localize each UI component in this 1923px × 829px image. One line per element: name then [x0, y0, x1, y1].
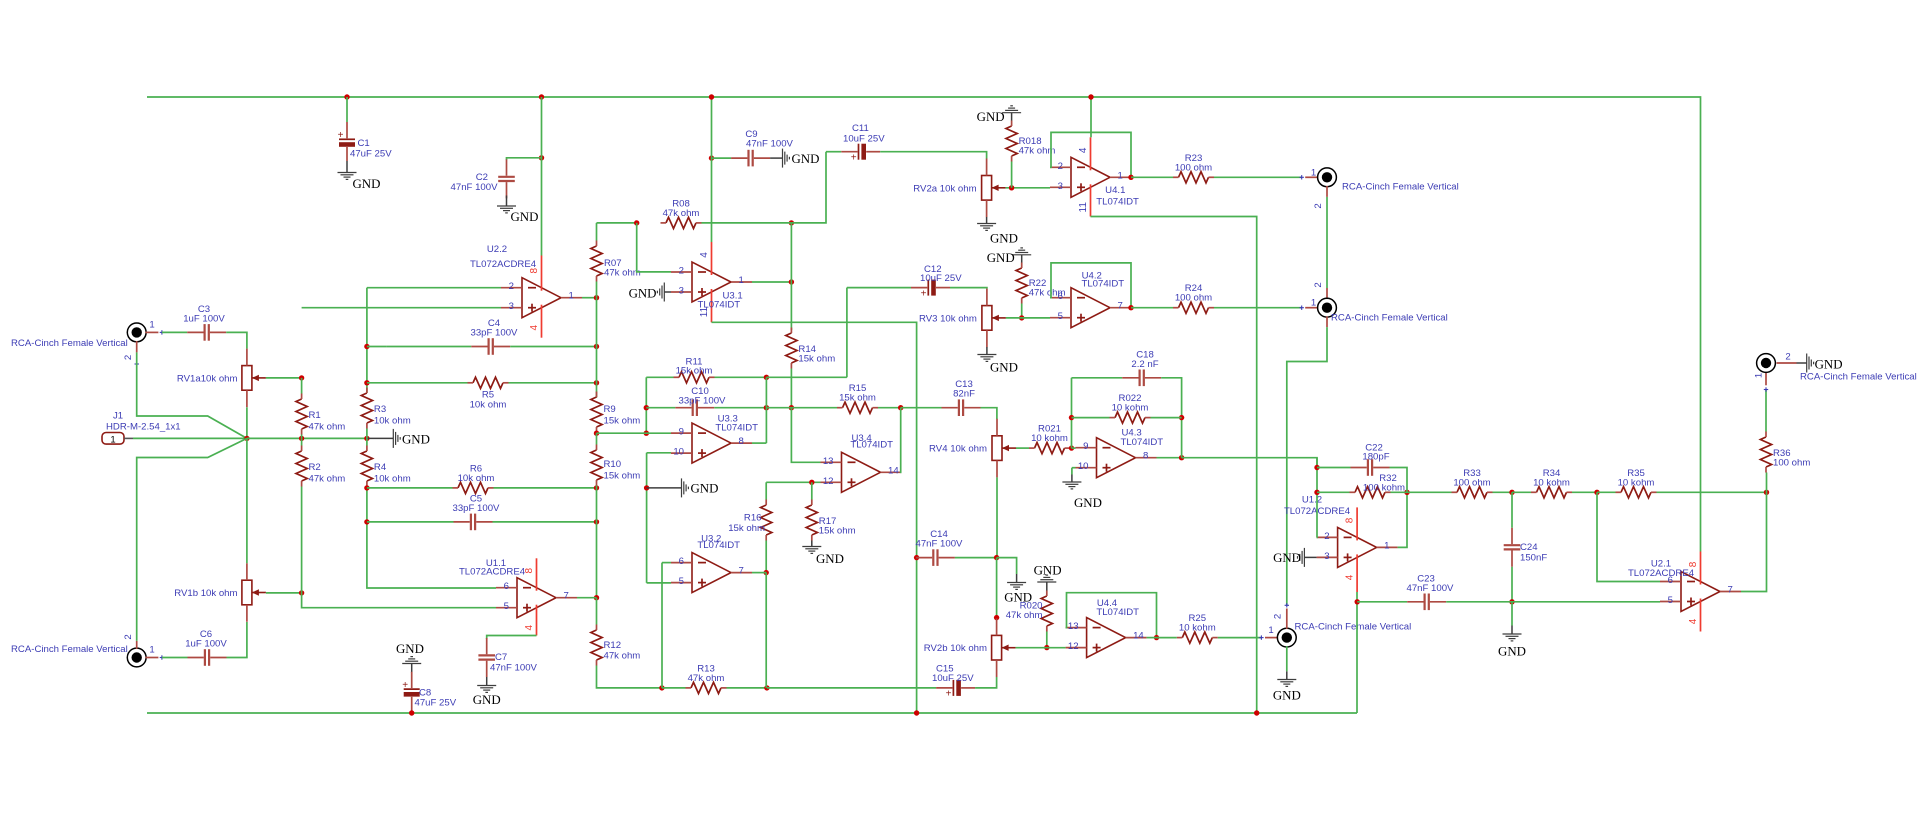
junction — [709, 155, 714, 160]
wire R25 to jack — [1218, 637, 1262, 639]
svg-text:33pF 100V: 33pF 100V — [471, 328, 519, 339]
wire R022 left — [1072, 417, 1110, 419]
wire R15 right — [878, 407, 901, 409]
junction — [1044, 645, 1049, 650]
ground C9 — [770, 149, 819, 168]
wire C12 to RV3 — [950, 288, 987, 289]
label right jack — [1800, 372, 1917, 383]
ground R22 — [987, 248, 1031, 265]
wire to C11 — [791, 152, 826, 223]
label jack2 — [1331, 312, 1448, 323]
svg-text:RCA-Cinch Female Vertical: RCA-Cinch Female Vertical — [1331, 312, 1448, 323]
svg-text:2: 2 — [1313, 203, 1324, 208]
wire to R17 — [811, 482, 813, 499]
svg-text:GND: GND — [691, 482, 719, 496]
svg-text:GND: GND — [353, 177, 381, 191]
wire U4.4 feedback — [1066, 593, 1157, 638]
wire R34 right — [1572, 491, 1597, 493]
svg-text:10k ohm: 10k ohm — [470, 400, 507, 411]
wire to U1.1 pin5 — [302, 593, 496, 608]
potentiometer RV4 — [929, 419, 1016, 478]
junction — [644, 485, 649, 490]
wire U1.2 out — [1398, 492, 1407, 547]
wire V+ to U4.1 pin4 — [1090, 97, 1092, 137]
svg-text:10k ohm: 10k ohm — [374, 474, 411, 485]
wire C23 left — [1357, 601, 1407, 603]
wire U1.2 pin4 to V- rail — [1356, 592, 1358, 713]
resistor R16 — [728, 500, 772, 541]
resistor R4 — [361, 446, 410, 487]
svg-text:1: 1 — [569, 291, 574, 302]
op-amp U1.1 — [459, 558, 577, 636]
junction — [789, 405, 794, 410]
capacitor C18 — [1122, 349, 1161, 386]
junction — [364, 485, 369, 490]
junction — [1254, 710, 1259, 715]
wire U4.3 out — [1157, 457, 1182, 459]
svg-text:3: 3 — [1058, 181, 1063, 192]
resistor R018 — [1006, 121, 1055, 162]
wire U1.2 pin2 node — [1316, 458, 1318, 538]
op-amp U4.3 — [1076, 428, 1164, 478]
svg-text:GND: GND — [987, 251, 1015, 265]
svg-text:10 kohm: 10 kohm — [1533, 477, 1570, 488]
wire R11/C10/pin9 node — [645, 377, 647, 433]
wire U2.2 out — [582, 297, 597, 299]
svg-text:R10: R10 — [604, 459, 622, 470]
capacitor C3 — [183, 304, 226, 341]
connector RCA jack output 2 — [1318, 298, 1337, 317]
pin connection mark — [1285, 603, 1289, 607]
svg-text:15k ohm: 15k ohm — [676, 366, 713, 377]
capacitor C13 — [942, 379, 981, 416]
svg-text:HDR-M-2.54_1x1: HDR-M-2.54_1x1 — [106, 422, 181, 433]
wire R6 left — [367, 487, 453, 489]
svg-text:2.2 nF: 2.2 nF — [1131, 359, 1158, 370]
pin connection mark — [1259, 635, 1263, 639]
capacitor C10 — [675, 386, 726, 416]
svg-text:47k ohm: 47k ohm — [1019, 146, 1056, 157]
junction — [594, 380, 599, 385]
svg-text:U2.2: U2.2 — [487, 244, 507, 255]
resistor R5 — [468, 377, 509, 410]
svg-text:100 ohm: 100 ohm — [1773, 458, 1810, 469]
resistor R34 — [1531, 468, 1572, 498]
ground R018 — [977, 106, 1021, 124]
wire to R14 — [790, 282, 792, 330]
capacitor C7 — [478, 638, 537, 677]
junction — [914, 710, 919, 715]
svg-text:RV3 10k ohm: RV3 10k ohm — [919, 313, 977, 324]
junction — [994, 615, 999, 620]
svg-text:10 kohm: 10 kohm — [1618, 477, 1655, 488]
svg-text:TL074IDT: TL074IDT — [698, 300, 741, 311]
op-amp U1.2 — [1284, 494, 1398, 592]
connector RCA jack output 1 — [1318, 168, 1337, 187]
resistor R33 — [1452, 468, 1493, 498]
svg-text:1: 1 — [1118, 170, 1123, 181]
svg-text:2: 2 — [1273, 614, 1284, 619]
wire — [1147, 637, 1157, 639]
svg-text:33pF 100V: 33pF 100V — [679, 396, 727, 407]
junction — [594, 485, 599, 490]
junction — [539, 94, 544, 99]
svg-text:8: 8 — [739, 436, 744, 447]
wire RV3 wiper to U4.2 pin5 — [1006, 317, 1050, 319]
pin 1 label jack2 — [1311, 297, 1316, 308]
svg-text:2: 2 — [679, 266, 684, 277]
label jack3 — [1295, 622, 1412, 633]
ground RV3 — [977, 347, 1018, 374]
pin connection mark — [160, 330, 164, 334]
connector RCA jack right — [1757, 354, 1776, 373]
svg-text:7: 7 — [1118, 301, 1123, 312]
svg-text:J1: J1 — [113, 410, 123, 421]
junction — [1009, 185, 1014, 190]
junction — [1088, 94, 1093, 99]
resistor R6 — [453, 464, 495, 494]
svg-text:8: 8 — [1345, 517, 1356, 523]
capacitor C15 — [932, 664, 975, 700]
wire R07 top — [596, 223, 598, 241]
svg-text:15k ohm: 15k ohm — [728, 523, 765, 534]
wire R16 bottom — [765, 541, 767, 573]
ground C8 — [396, 642, 424, 673]
wire U1.1 pin4 to C7 — [487, 636, 537, 640]
wire U2.2 pin3 — [302, 307, 501, 309]
wire U2.1 out — [1741, 492, 1767, 591]
svg-text:RV1a10k ohm: RV1a10k ohm — [177, 373, 238, 384]
svg-text:TL074IDT: TL074IDT — [697, 540, 740, 551]
wire C5 left — [367, 521, 454, 523]
svg-text:1uF 100V: 1uF 100V — [185, 639, 227, 650]
svg-text:2: 2 — [1785, 352, 1790, 363]
svg-text:12: 12 — [1068, 641, 1079, 652]
wire out to R13 line — [765, 573, 767, 688]
svg-text:47k ohm: 47k ohm — [1006, 610, 1043, 621]
wire to C1 — [346, 97, 348, 122]
wire U3.1 pin11 to V- rail — [712, 322, 917, 713]
svg-text:8: 8 — [1688, 561, 1699, 567]
junction — [1154, 635, 1159, 640]
pin 2 label jack3 — [1273, 614, 1284, 619]
junction — [1069, 445, 1074, 450]
wire jack1 pin2 to jack2 pin2 — [1326, 197, 1328, 288]
junction — [1179, 455, 1184, 460]
svg-text:R9: R9 — [604, 404, 616, 415]
svg-text:10: 10 — [673, 447, 684, 458]
svg-text:47nF 100V: 47nF 100V — [451, 182, 499, 193]
svg-text:7: 7 — [1728, 585, 1733, 596]
op-amp U3.2 — [671, 533, 752, 592]
capacitor C11 — [841, 123, 885, 163]
junction — [644, 405, 649, 410]
junction — [409, 710, 414, 715]
junction — [1314, 465, 1319, 470]
potentiometer RV2a — [913, 159, 1005, 218]
wire — [915, 557, 918, 559]
svg-text:GND: GND — [1273, 689, 1301, 703]
wire R13 right — [727, 687, 767, 689]
svg-text:10 kohm: 10 kohm — [1031, 433, 1068, 444]
svg-text:+: + — [946, 689, 952, 700]
svg-text:TL072ACDRE4: TL072ACDRE4 — [1628, 568, 1695, 579]
label jack input 2 — [11, 644, 128, 655]
svg-text:47nF 100V: 47nF 100V — [1407, 583, 1455, 594]
svg-text:RCA-Cinch Female Vertical: RCA-Cinch Female Vertical — [11, 644, 128, 655]
junction — [659, 685, 664, 690]
junction — [364, 519, 369, 524]
svg-text:RCA-Cinch Female Vertical: RCA-Cinch Female Vertical — [1295, 622, 1412, 633]
wire C18 left vertical — [1071, 378, 1073, 448]
junction — [299, 436, 304, 441]
junction — [299, 590, 304, 595]
svg-text:47nF 100V: 47nF 100V — [490, 663, 538, 674]
wire jack ground chain — [1287, 327, 1327, 605]
ground RV2a — [977, 217, 1018, 246]
svg-text:RCA-Cinch Female Vertical: RCA-Cinch Female Vertical — [1342, 182, 1459, 193]
wire R24 to jack — [1214, 307, 1302, 309]
wire C11 to RV2a — [880, 152, 986, 159]
ground right jack — [1797, 354, 1843, 373]
pin 1 label jack3 — [1268, 625, 1273, 636]
svg-text:10k ohm: 10k ohm — [458, 473, 495, 484]
resistor R24 — [1173, 283, 1214, 313]
junction — [344, 94, 349, 99]
wire U3.2 pin5 — [647, 582, 671, 584]
junction — [1128, 305, 1133, 310]
svg-text:R1: R1 — [309, 410, 321, 421]
wire R020 bottom — [1046, 632, 1048, 648]
svg-text:4: 4 — [529, 324, 540, 330]
svg-text:5: 5 — [1058, 311, 1063, 322]
svg-text:9: 9 — [679, 427, 684, 438]
junction — [364, 344, 369, 349]
svg-text:TL074IDT: TL074IDT — [1096, 196, 1139, 207]
wire C13 to RV4 — [981, 408, 997, 419]
wire jack to C6 — [162, 657, 188, 659]
wire U4.3 pin10 — [1072, 467, 1076, 469]
svg-text:C7: C7 — [495, 652, 507, 663]
wire C3 to RV1a — [226, 332, 247, 348]
svg-text:+: + — [851, 152, 857, 163]
wire — [1070, 447, 1072, 449]
wire U4.3 out to U1.2 — [1182, 458, 1317, 468]
junction — [1594, 490, 1599, 495]
pin 1 label right jack — [1754, 373, 1765, 378]
svg-text:10uF 25V: 10uF 25V — [932, 673, 974, 684]
wire R14 bottom — [790, 369, 792, 408]
svg-text:4: 4 — [1078, 147, 1089, 153]
svg-text:1: 1 — [149, 320, 154, 331]
svg-text:TL074IDT: TL074IDT — [1096, 607, 1139, 618]
wire to R2 — [301, 438, 303, 445]
junction — [1764, 490, 1769, 495]
junction — [809, 480, 814, 485]
junction — [994, 555, 999, 560]
junction — [364, 380, 369, 385]
wire R6 right — [494, 487, 597, 489]
wire U4.3 pin9 — [1072, 447, 1076, 449]
junction — [789, 279, 794, 284]
capacitor C5 — [453, 494, 501, 531]
label jack input 1 — [11, 338, 128, 349]
wire to RV2b — [996, 558, 998, 618]
wire V+ to U3.1 pin4 — [711, 97, 713, 242]
wire RV4 bottom to C14 line — [996, 477, 998, 557]
junction — [914, 555, 919, 560]
junction — [634, 220, 639, 225]
op-amp U4.1 — [1050, 137, 1139, 216]
svg-text:15k ohm: 15k ohm — [819, 526, 856, 537]
wire to R36 — [1766, 473, 1768, 493]
svg-text:GND: GND — [473, 693, 501, 707]
wire R3 bottom — [366, 429, 368, 439]
svg-text:RV4 10k ohm: RV4 10k ohm — [929, 444, 987, 455]
wire — [596, 432, 598, 435]
wire pin10 to GND and U3.2 pin5 — [646, 453, 648, 583]
capacitor C9 — [731, 129, 793, 166]
wire R35 right — [1657, 491, 1767, 493]
svg-text:1: 1 — [1754, 373, 1765, 378]
svg-text:2: 2 — [509, 281, 514, 292]
svg-text:1uF 100V: 1uF 100V — [183, 314, 225, 325]
wire V+ rail — [147, 97, 1701, 552]
wire U3.2 out — [752, 572, 766, 574]
pin 2 label input jack1 — [123, 355, 134, 360]
wire C10 left — [646, 407, 675, 409]
svg-text:RCA-Cinch Female Vertical: RCA-Cinch Female Vertical — [1800, 372, 1917, 383]
wire C22 left — [1317, 467, 1351, 469]
wire J1 node — [247, 437, 367, 439]
svg-text:3: 3 — [1324, 551, 1329, 562]
svg-text:4: 4 — [524, 624, 535, 630]
resistor R3 — [361, 388, 410, 429]
svg-text:47uF 25V: 47uF 25V — [350, 148, 392, 159]
wire RV1b wiper — [266, 592, 302, 594]
connector RCA jack input 1 — [127, 323, 146, 342]
junction — [1509, 599, 1514, 604]
wire to R25 — [1157, 637, 1177, 639]
potentiometer RV2b — [924, 618, 1016, 677]
svg-text:5: 5 — [679, 576, 684, 587]
capacitor C6 — [185, 629, 227, 666]
wire RV1b top — [246, 438, 248, 563]
svg-text:2: 2 — [1058, 161, 1063, 172]
svg-text:12: 12 — [823, 476, 834, 487]
op-amp U4.2 — [1050, 271, 1131, 328]
capacitor C24 — [1504, 528, 1548, 567]
wire C9 left — [712, 157, 732, 159]
pin connection mark — [1764, 387, 1768, 391]
svg-text:47k ohm: 47k ohm — [604, 268, 641, 279]
wire C12 left — [847, 287, 911, 289]
wire V- rail — [147, 712, 1357, 714]
junction — [764, 570, 769, 575]
wire C24 bottom — [1511, 567, 1513, 602]
junction — [764, 375, 769, 380]
junction — [1404, 490, 1409, 495]
wire RV1a wiper — [266, 377, 302, 379]
svg-text:GND: GND — [792, 152, 820, 166]
svg-text:10 kohm: 10 kohm — [1112, 403, 1149, 414]
svg-text:GND: GND — [990, 232, 1018, 246]
ground U3.1 pin3 — [629, 283, 671, 302]
junction — [764, 685, 769, 690]
wire U4.1 feedback — [1050, 132, 1131, 177]
resistor R13 — [686, 664, 727, 694]
svg-text:10uF 25V: 10uF 25V — [843, 133, 885, 144]
svg-text:4: 4 — [1345, 574, 1356, 580]
ground C1 — [338, 161, 381, 191]
svg-text:13: 13 — [1068, 621, 1079, 632]
wire C15 to RV2b — [975, 677, 997, 688]
svg-text:RV1b 10k ohm: RV1b 10k ohm — [174, 588, 237, 599]
resistor R022 — [1110, 393, 1151, 423]
svg-text:R3: R3 — [374, 404, 386, 415]
svg-text:1: 1 — [149, 645, 154, 656]
svg-text:1: 1 — [110, 434, 115, 445]
wire R23 to jack — [1214, 176, 1302, 178]
svg-text:TL072ACDRE4: TL072ACDRE4 — [470, 259, 537, 270]
wire C4 left — [367, 346, 387, 348]
wire to R23 — [1131, 176, 1173, 178]
wire R4 to U1.1 pin6 — [367, 487, 496, 589]
pin 1 label input jack1 — [149, 320, 154, 331]
connector RCA jack output 3 — [1277, 628, 1296, 647]
svg-text:+: + — [402, 680, 408, 691]
junction — [594, 344, 599, 349]
junction — [594, 519, 599, 524]
resistor R020 — [1006, 591, 1053, 632]
op-amp U3.3 — [671, 413, 758, 463]
svg-text:1: 1 — [1268, 625, 1273, 636]
wire C10 right — [714, 407, 766, 409]
wire C4 right — [510, 346, 596, 348]
pin 2 label jack2 — [1313, 282, 1324, 287]
wire C5 right — [493, 521, 597, 523]
svg-text:15k ohm: 15k ohm — [839, 393, 876, 404]
junction — [364, 436, 369, 441]
op-amp U2.2 — [470, 244, 582, 338]
junction — [709, 94, 714, 99]
resistor R17 — [806, 500, 855, 541]
op-amp U4.4 — [1066, 598, 1147, 658]
svg-text:10 kohm: 10 kohm — [1179, 623, 1216, 634]
wire to R16 — [765, 482, 767, 499]
svg-text:2: 2 — [1313, 282, 1324, 287]
svg-text:100 ohm: 100 ohm — [1453, 477, 1490, 488]
resistor R32 — [1350, 473, 1406, 498]
svg-text:GND: GND — [629, 287, 657, 301]
svg-text:2: 2 — [123, 355, 134, 360]
capacitor C8 — [402, 672, 456, 711]
ground U4.3 pin10 — [1062, 475, 1102, 511]
wire R32 left — [1317, 491, 1350, 493]
svg-text:GND: GND — [1074, 496, 1102, 510]
svg-text:10uF 25V: 10uF 25V — [920, 273, 962, 284]
svg-text:+: + — [338, 130, 344, 141]
svg-text:150nF: 150nF — [1520, 553, 1547, 564]
svg-text:GND: GND — [1815, 357, 1843, 371]
wire R11 left — [646, 376, 673, 378]
svg-text:47uF 25V: 47uF 25V — [415, 698, 457, 709]
wire V+ to U2.2 pin8 — [541, 97, 543, 256]
resistor R11 — [674, 356, 715, 383]
svg-text:GND: GND — [816, 552, 844, 566]
wire — [766, 407, 791, 409]
svg-text:1: 1 — [1311, 297, 1316, 308]
